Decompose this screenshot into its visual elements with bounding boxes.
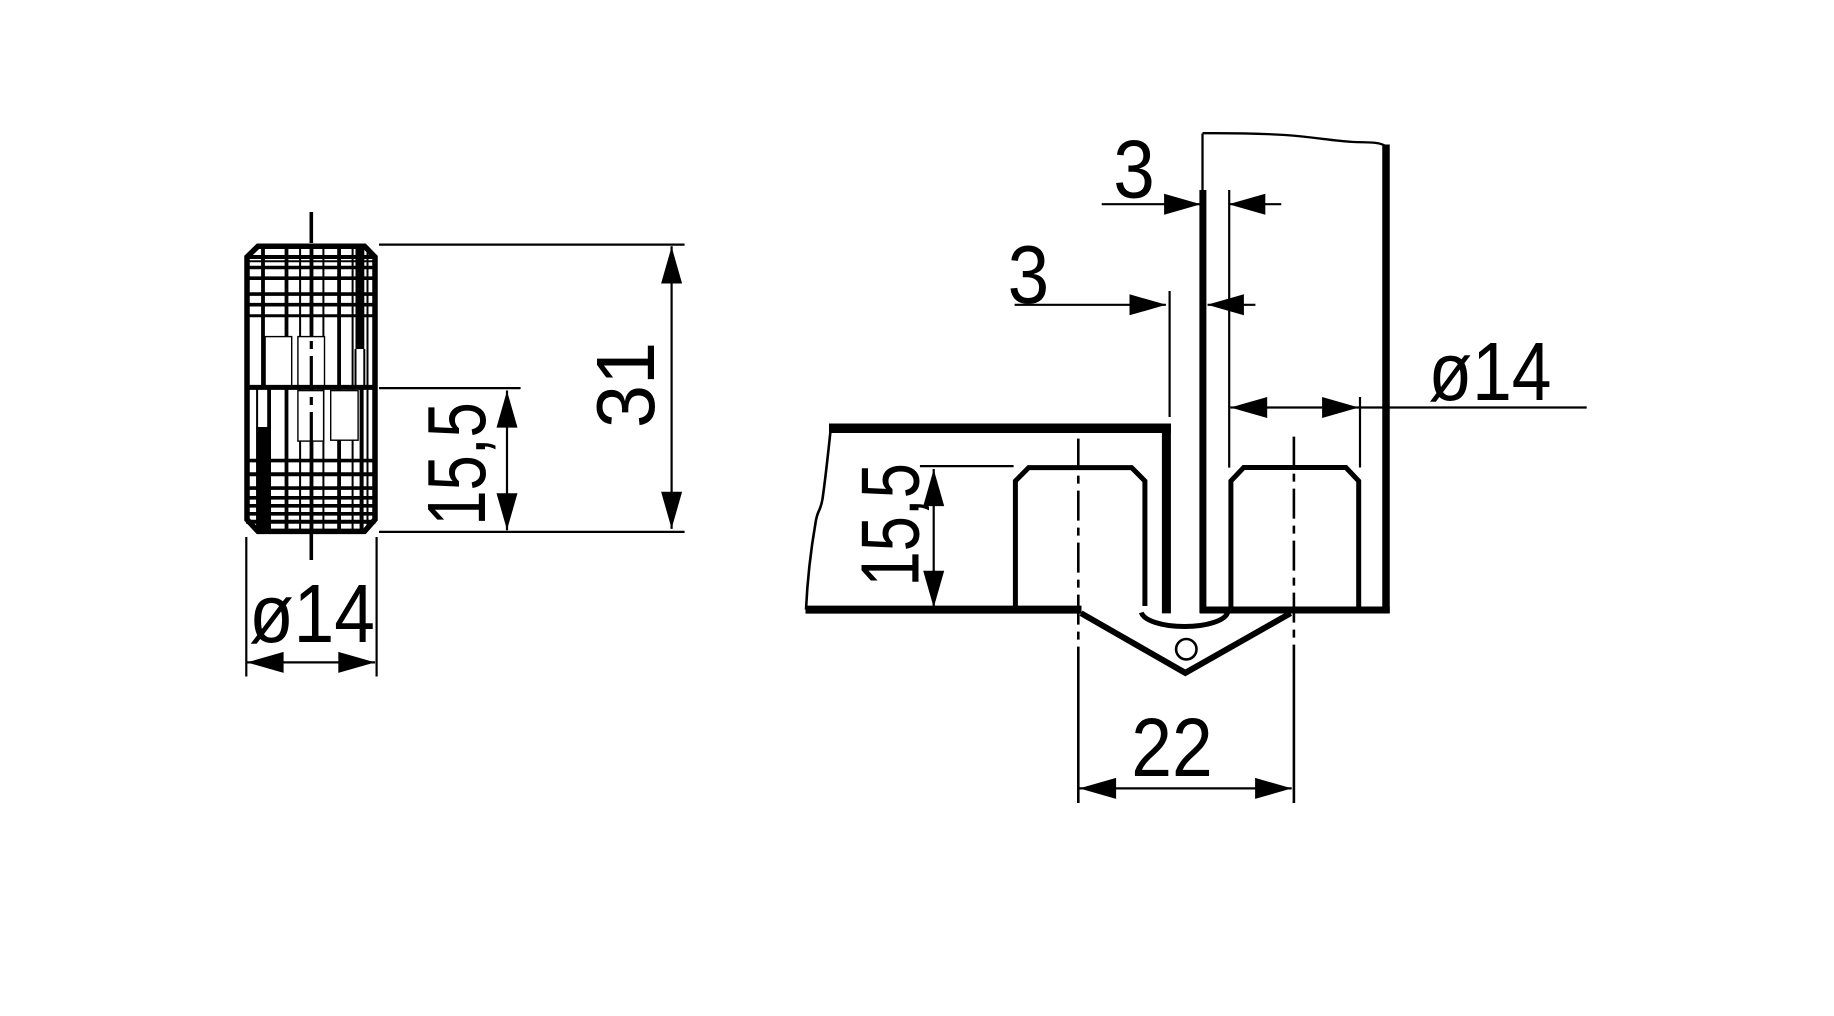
svg-text:3: 3 — [1008, 228, 1050, 321]
svg-text:22: 22 — [1131, 701, 1213, 794]
svg-text:ø14: ø14 — [249, 567, 375, 660]
svg-text:15,5: 15,5 — [410, 402, 503, 526]
svg-text:15,5: 15,5 — [843, 463, 936, 587]
svg-text:ø14: ø14 — [1429, 326, 1552, 418]
svg-text:31: 31 — [579, 342, 672, 428]
svg-text:3: 3 — [1113, 123, 1155, 216]
